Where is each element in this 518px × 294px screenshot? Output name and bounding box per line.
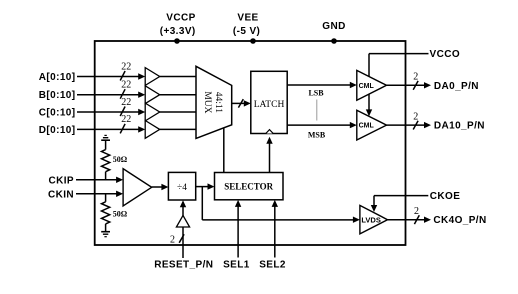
divide-by-4 block	[168, 172, 195, 200]
CKOE pin wire	[371, 191, 461, 212]
SELECTOR block	[215, 173, 284, 200]
svg-text:MUX: MUX	[202, 91, 212, 113]
resistor 50 ohm (CKIN termination)	[102, 194, 128, 232]
input bus B[0:10] wire with width-22 slash	[39, 80, 145, 102]
svg-text:SEL2: SEL2	[259, 259, 286, 270]
input buffer D	[145, 121, 196, 139]
svg-text:VEE: VEE	[237, 13, 258, 24]
svg-text:CKIN: CKIN	[48, 189, 74, 200]
svg-text:44:11: 44:11	[213, 92, 223, 114]
svg-text:2: 2	[170, 234, 175, 245]
clock wire from divider junction to LVDS	[202, 187, 360, 223]
svg-text:(+3.3V): (+3.3V)	[160, 26, 196, 37]
input bus A[0:10] wire with width-22 slash	[39, 61, 145, 83]
CML output buffer (LSB)	[357, 70, 387, 100]
svg-text:SELECTOR: SELECTOR	[224, 182, 273, 192]
reset input buffer (points up)	[170, 200, 190, 258]
svg-text:50Ω: 50Ω	[113, 155, 128, 164]
svg-text:A[0:10]: A[0:10]	[39, 72, 76, 83]
input pin CKIP	[49, 175, 124, 186]
output DA10_P/N wire with width-2 slash	[387, 111, 485, 131]
pin label RESET_P/N	[154, 259, 213, 270]
svg-text:2: 2	[414, 206, 419, 217]
input bus D[0:10] wire with width-22 slash	[39, 114, 145, 136]
svg-text:LSB: LSB	[308, 89, 324, 98]
44:11 MUX block	[196, 66, 232, 138]
svg-text:CK4O_P/N: CK4O_P/N	[433, 215, 486, 226]
MSB wire from LATCH to CML	[287, 122, 357, 140]
svg-text:CKIP: CKIP	[49, 175, 75, 186]
input pin CKIN	[48, 189, 123, 200]
LSB wire from LATCH to CML	[287, 82, 357, 98]
output CK4O_P/N wire with width-2 slash	[388, 206, 487, 226]
LVDS output buffer	[360, 205, 388, 234]
divider output wire to SELECTOR	[196, 183, 215, 189]
resistor 50 ohm (CKIP termination)	[102, 150, 128, 180]
svg-text:SEL1: SEL1	[223, 259, 250, 270]
power pin GND	[322, 21, 345, 44]
output DA0_P/N wire with width-2 slash	[387, 72, 479, 92]
MUX to LATCH bus wire with slash	[232, 99, 251, 108]
clock line SELECTOR to LATCH	[266, 137, 272, 173]
svg-text:CML: CML	[359, 123, 375, 130]
input buffer C	[145, 103, 196, 121]
svg-text:DA10_P/N: DA10_P/N	[434, 121, 485, 132]
CML output buffer (MSB)	[357, 110, 387, 140]
svg-text:VCCP: VCCP	[166, 13, 195, 24]
ground symbol above 50 ohm resistor	[101, 135, 110, 149]
svg-text:DA0_P/N: DA0_P/N	[434, 81, 479, 92]
input buffer A	[145, 68, 196, 86]
pin SEL2 wire	[259, 200, 286, 270]
svg-text:B[0:10]: B[0:10]	[39, 90, 76, 101]
VCCO pin wire	[369, 49, 460, 76]
svg-text:(-5 V): (-5 V)	[233, 26, 260, 37]
svg-text:RESET_P/N: RESET_P/N	[154, 259, 213, 270]
chip outline box	[95, 41, 406, 245]
input buffer B	[145, 86, 196, 104]
svg-text:C[0:10]: C[0:10]	[39, 108, 76, 119]
svg-text:MSB: MSB	[308, 131, 326, 140]
pin SEL1 wire	[223, 200, 250, 270]
LATCH block	[251, 71, 287, 133]
svg-text:22: 22	[121, 114, 131, 125]
svg-text:CKOE: CKOE	[430, 191, 461, 202]
ground symbol below lower resistor	[101, 232, 110, 237]
svg-text:22: 22	[121, 80, 131, 91]
svg-text:GND: GND	[322, 21, 345, 32]
power pin VCCP (+3.3V)	[160, 13, 196, 44]
svg-text:D[0:10]: D[0:10]	[39, 125, 76, 136]
ellipsis line between LSB and MSB	[316, 100, 318, 121]
clock input buffer	[123, 169, 168, 206]
power pin VEE (-5 V)	[233, 13, 260, 44]
svg-text:22: 22	[121, 61, 131, 72]
svg-text:2: 2	[413, 111, 418, 122]
svg-text:CML: CML	[359, 83, 375, 90]
svg-text:VCCO: VCCO	[430, 49, 461, 60]
svg-text:50Ω: 50Ω	[113, 209, 128, 218]
svg-text:÷4: ÷4	[177, 183, 187, 193]
svg-text:LVDS: LVDS	[361, 215, 380, 224]
svg-text:2: 2	[413, 72, 418, 83]
input bus C[0:10] wire with width-22 slash	[39, 97, 145, 119]
svg-text:22: 22	[121, 97, 131, 108]
svg-text:LATCH: LATCH	[254, 100, 285, 110]
supply arrow CML1 to CML2	[366, 94, 372, 116]
select line SELECTOR to MUX	[223, 128, 225, 173]
